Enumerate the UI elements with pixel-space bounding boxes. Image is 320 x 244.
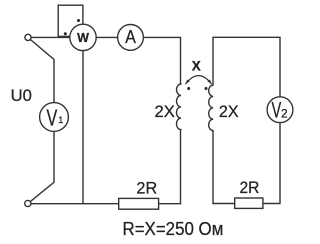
terminal top-left bbox=[25, 34, 31, 40]
wire top-left: terminal to wattmeter to ammeter to corner bbox=[31, 36, 181, 38]
wire right coil bottom feed bbox=[212, 131, 214, 204]
coupling arrowhead right bbox=[207, 79, 211, 83]
svg-text:W: W bbox=[77, 31, 89, 45]
coupling arrowhead left bbox=[186, 79, 190, 83]
svg-text:1: 1 bbox=[58, 115, 63, 125]
svg-text:V: V bbox=[272, 98, 282, 123]
svg-text:A: A bbox=[125, 26, 136, 47]
resistor 2R left bbox=[119, 198, 159, 209]
voltmeter V1 circle bbox=[40, 103, 69, 132]
transformer polarity dot right bbox=[205, 87, 208, 90]
wire wattmeter bottom vertical bbox=[82, 44, 84, 204]
wire V1 lower branch diagonal bbox=[30, 131, 54, 202]
wire left resistor to left coil bbox=[159, 203, 181, 205]
svg-text:2X: 2X bbox=[155, 102, 175, 121]
svg-text:2: 2 bbox=[281, 107, 288, 121]
svg-text:2X: 2X bbox=[219, 102, 239, 121]
svg-text:U0: U0 bbox=[11, 86, 32, 105]
svg-text:2R: 2R bbox=[136, 179, 157, 198]
coupling arrow arc bbox=[186, 76, 212, 84]
wire right loop top bbox=[213, 37, 280, 97]
svg-text:X: X bbox=[192, 59, 201, 74]
inductor right coil 2X bbox=[209, 85, 214, 131]
wattmeter polarity dot lower bbox=[64, 32, 67, 35]
transformer polarity dot left bbox=[187, 87, 190, 90]
wattmeter polarity dot upper bbox=[77, 19, 80, 22]
svg-text:V: V bbox=[47, 105, 58, 131]
wire right loop bottom left bbox=[213, 203, 235, 205]
wattmeter voltage-coil rectangle bbox=[58, 5, 83, 36]
resistor 2R right bbox=[235, 198, 263, 208]
wattmeter U1 circle bbox=[70, 24, 96, 50]
wire right loop bottom right bbox=[263, 123, 280, 204]
voltmeter V2 circle bbox=[267, 97, 293, 123]
inductor left coil 2X bbox=[176, 84, 181, 130]
terminal bottom-left bbox=[25, 200, 31, 206]
svg-text:2R: 2R bbox=[240, 178, 260, 197]
ammeter A circle bbox=[118, 25, 144, 51]
wire left coil top feed bbox=[180, 37, 182, 84]
wire bottom-left run bbox=[31, 203, 119, 205]
wire V1 upper branch diagonal bbox=[31, 40, 55, 103]
wire left coil bottom feed bbox=[180, 130, 182, 204]
svg-text:R=X=250 Ом: R=X=250 Ом bbox=[123, 219, 224, 239]
